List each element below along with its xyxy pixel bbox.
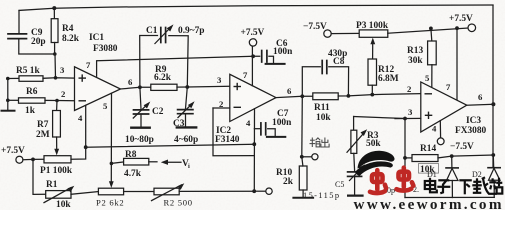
svg-text:P3 100k: P3 100k	[356, 21, 389, 31]
svg-text:20p: 20p	[31, 37, 46, 47]
svg-text:FX3080: FX3080	[455, 126, 487, 136]
svg-text:R2 500: R2 500	[164, 198, 193, 208]
svg-text:50k: 50k	[366, 139, 381, 149]
svg-text:−7.5V: −7.5V	[303, 22, 327, 32]
svg-text:+7.5V: +7.5V	[449, 14, 473, 24]
svg-text:−7.5V: −7.5V	[450, 142, 474, 152]
svg-text:i: i	[188, 163, 190, 170]
svg-text:6: 6	[287, 86, 292, 96]
svg-text:C3: C3	[173, 119, 185, 129]
svg-text:15-115p: 15-115p	[303, 191, 340, 200]
svg-text:www.eeworm.com: www.eeworm.com	[354, 196, 504, 210]
svg-text:6.8M: 6.8M	[378, 74, 399, 84]
svg-text:7: 7	[86, 60, 91, 70]
svg-text:10~80p: 10~80p	[125, 135, 154, 145]
svg-text:C1: C1	[146, 26, 158, 36]
svg-text:C2: C2	[152, 107, 164, 117]
svg-text:5: 5	[103, 101, 108, 111]
svg-text:R7: R7	[37, 120, 49, 130]
svg-text:2: 2	[219, 99, 223, 109]
svg-text:3: 3	[217, 75, 222, 85]
svg-text:4: 4	[246, 118, 251, 128]
svg-text:C8: C8	[333, 57, 345, 67]
svg-text:4.7k: 4.7k	[124, 169, 142, 179]
svg-text:2M: 2M	[36, 130, 50, 140]
svg-text:30k: 30k	[408, 56, 423, 66]
svg-text:5: 5	[425, 73, 430, 83]
svg-text:R4: R4	[62, 24, 74, 34]
svg-text:C5: C5	[335, 180, 344, 189]
svg-text:D2: D2	[472, 170, 482, 179]
svg-text:R5 1k: R5 1k	[16, 66, 40, 76]
svg-text:10k: 10k	[316, 113, 331, 123]
svg-text:8.2k: 8.2k	[62, 34, 80, 44]
svg-text:100n: 100n	[272, 118, 292, 128]
svg-text:3: 3	[408, 107, 413, 117]
svg-text:2k: 2k	[283, 177, 294, 187]
svg-text:R14: R14	[420, 144, 436, 154]
svg-text:R11: R11	[314, 103, 330, 113]
svg-text:P1 100k: P1 100k	[40, 166, 73, 176]
svg-text:6: 6	[478, 92, 483, 102]
svg-text:2: 2	[61, 89, 65, 99]
svg-text:R8: R8	[125, 150, 137, 160]
svg-text:0.9~7p: 0.9~7p	[178, 26, 205, 36]
svg-text:D1: D1	[427, 170, 437, 179]
svg-text:10k: 10k	[56, 200, 71, 210]
svg-text:P2 6k2: P2 6k2	[96, 198, 124, 208]
svg-text:6: 6	[128, 77, 133, 87]
svg-text:R6: R6	[26, 87, 38, 97]
svg-text:R1: R1	[46, 180, 58, 190]
svg-text:3: 3	[60, 65, 65, 75]
svg-text:F3140: F3140	[215, 135, 240, 145]
svg-text:IC3: IC3	[466, 116, 481, 126]
svg-text:+7.5V: +7.5V	[1, 146, 25, 156]
svg-text:+7.5V: +7.5V	[241, 28, 265, 38]
svg-text:F3080: F3080	[93, 44, 118, 54]
svg-text:4: 4	[78, 113, 83, 123]
svg-text:2: 2	[407, 84, 411, 94]
svg-text:7: 7	[243, 70, 248, 80]
svg-text:100n: 100n	[273, 47, 293, 57]
svg-text:4: 4	[432, 124, 437, 134]
svg-text:7: 7	[446, 82, 451, 92]
svg-text:4~60p: 4~60p	[174, 135, 198, 145]
svg-text:1k: 1k	[25, 106, 36, 116]
svg-text:R13: R13	[407, 46, 423, 56]
svg-text:6.2k: 6.2k	[154, 73, 172, 83]
svg-text:IC1: IC1	[89, 33, 104, 43]
